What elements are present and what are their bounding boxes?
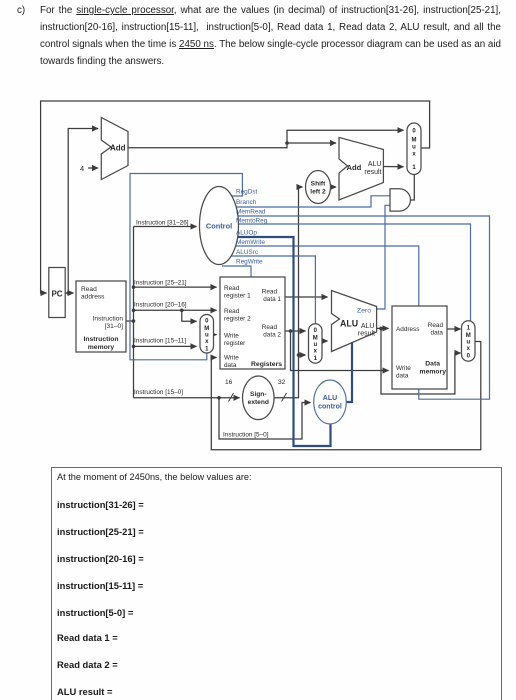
node bus tap instruction output: [132, 319, 136, 323]
registers box: [220, 277, 285, 369]
svg-text:Instruction [20–16]: Instruction [20–16]: [134, 302, 187, 309]
svg-text:Instruction [5–0]: Instruction [5–0]: [223, 432, 269, 439]
wire pc-to-instruction-memory: [65, 292, 73, 294]
svg-text:Instruction [31–26]: Instruction [31–26]: [136, 220, 189, 227]
mux M1 regdst (before Write register): [200, 315, 214, 354]
and gate (branch AND zero): [390, 189, 410, 211]
wire MemRead control signal to data memory bottom: [232, 216, 490, 399]
svg-text:Control: Control: [206, 222, 232, 231]
svg-text:memory: memory: [420, 369, 447, 376]
svg-text:Read: Read: [224, 308, 240, 315]
node instruction[15-0] / [5-0] junction: [217, 396, 221, 400]
node read-data-2 junction: [289, 329, 293, 333]
mux M3 memtoreg (after data memory): [462, 321, 476, 361]
wire RegWrite control signal to Registers top: [222, 266, 251, 277]
ALU U1: [332, 291, 377, 352]
svg-text:u: u: [205, 333, 209, 339]
svg-text:data 2: data 2: [263, 332, 281, 339]
mux M4 branch (PCSrc, top right): [407, 123, 421, 175]
node pc+4 junction: [285, 141, 289, 145]
svg-text:32: 32: [278, 379, 286, 386]
shift left 2 ellipse: [306, 171, 331, 204]
wire sign-extend output up to shift-left-2: [274, 187, 303, 398]
PC register: [49, 268, 65, 318]
ALU control ellipse: [314, 380, 347, 424]
answers box: [51, 467, 502, 700]
wire read-data-1 to ALU: [285, 296, 328, 298]
node bus tap instruction[25-21]: [132, 285, 136, 289]
sign-extend ellipse: [242, 376, 274, 420]
node instruction[20-16] branch junction: [180, 309, 184, 313]
wire instruction bus vertical: [133, 227, 135, 398]
wire ALUSrc control signal to alusrc mux select: [228, 256, 315, 324]
svg-text:Instruction [25–21]: Instruction [25–21]: [134, 280, 187, 287]
svg-text:left 2: left 2: [310, 189, 326, 196]
svg-text:ALU: ALU: [340, 319, 358, 329]
wire ALU-control output (thick) to ALU select input: [346, 343, 352, 403]
svg-text:data: data: [224, 362, 237, 369]
wire instruction[20-16] to Read register 2: [134, 309, 217, 311]
wire RegDst control signal looping left to regdst mux select: [130, 174, 242, 360]
slash 32-bit after sign-extend: [282, 393, 287, 402]
wire ALU-result to data memory Address: [377, 327, 389, 329]
svg-text:u: u: [412, 145, 416, 151]
slash 16-bit on instruction[15-0]: [229, 393, 234, 402]
svg-text:Sign-: Sign-: [250, 391, 266, 398]
svg-text:u: u: [313, 342, 317, 348]
svg-text:Read: Read: [224, 285, 240, 292]
adder Add1 (PC+4): [101, 118, 128, 180]
svg-text:Data: Data: [425, 361, 440, 368]
wire instruction[15-0] to sign-extend: [134, 397, 240, 399]
svg-text:RegDst: RegDst: [236, 189, 258, 196]
control unit ellipse: [200, 187, 239, 265]
svg-text:register 1: register 1: [224, 293, 251, 300]
svg-text:data 1: data 1: [263, 296, 281, 303]
wire instruction[31-26] to Control: [134, 226, 197, 228]
wire MemtoReg control signal to final mux select: [233, 224, 471, 321]
wire pc-loop from branch mux output around top-left into PC: [41, 101, 430, 293]
wire and-gate output to branch mux select: [410, 174, 414, 200]
wire Zero from ALU to AND gate: [377, 205, 390, 309]
svg-text:ALU: ALU: [368, 161, 382, 168]
svg-text:result: result: [358, 331, 375, 338]
svg-text:register 2: register 2: [224, 316, 251, 323]
svg-text:Read: Read: [262, 324, 278, 331]
svg-text:control: control: [318, 404, 342, 411]
svg-text:ALUOp: ALUOp: [236, 230, 257, 237]
svg-text:data: data: [396, 373, 409, 380]
svg-text:M: M: [204, 326, 209, 332]
svg-text:data: data: [431, 330, 444, 337]
svg-text:Write: Write: [224, 333, 239, 340]
wire constant-4 stub into Add1: [88, 167, 98, 169]
wire write-back from final mux to Write data of Registers: [211, 342, 481, 450]
svg-text:Read: Read: [81, 286, 97, 293]
svg-text:Read: Read: [428, 322, 444, 329]
svg-text:ALUSrc: ALUSrc: [236, 249, 259, 256]
data memory box: [392, 306, 447, 389]
node bus tap instruction[15-11]: [132, 345, 136, 349]
svg-text:Instruction [15–0]: Instruction [15–0]: [134, 389, 183, 396]
node pc-up junction: [67, 291, 70, 294]
instruction memory box: [76, 281, 126, 352]
svg-text:MemRead: MemRead: [236, 209, 266, 216]
svg-text:Address: Address: [396, 326, 419, 333]
wire MemWrite control signal to data memory top: [230, 246, 419, 306]
svg-text:Instruction: Instruction: [93, 316, 124, 323]
svg-text:extend: extend: [248, 399, 269, 406]
svg-text:Add: Add: [110, 144, 126, 153]
wire ALU-result bypass to final mux input 0: [381, 328, 461, 394]
svg-text:Instruction [15–11]: Instruction [15–11]: [134, 338, 186, 345]
wire instruction[25-21] to Read register 1: [134, 286, 217, 288]
wire ALUOp control signal (thick) to ALU control: [226, 237, 331, 446]
wire shift-left-2 output to Add2: [331, 186, 337, 188]
wire read-data-2 to alusrc mux input 0: [285, 330, 306, 332]
svg-text:Write: Write: [224, 355, 239, 362]
svg-text:u: u: [466, 340, 470, 346]
wire instruction[15-11] to regdst mux input 1: [134, 345, 197, 347]
svg-text:MemWrite: MemWrite: [236, 239, 265, 246]
mux M2 alusrc (before ALU): [309, 324, 323, 363]
svg-text:16: 16: [225, 379, 233, 386]
svg-text:register: register: [224, 340, 246, 347]
svg-text:Branch: Branch: [236, 199, 257, 206]
wire sign-extend branch to alusrc mux input 1: [299, 354, 306, 356]
wire regdst-mux output to Write register: [214, 334, 217, 336]
wire pc+4 branch up to mux0 input: [287, 130, 404, 143]
svg-text:Zero: Zero: [357, 308, 371, 315]
svg-text:[31–0]: [31–0]: [105, 323, 124, 330]
svg-text:MemtoReg: MemtoReg: [236, 218, 268, 225]
adder Add2 (branch target): [339, 137, 383, 200]
node sign-extend branch junction: [297, 353, 301, 357]
svg-text:Read: Read: [262, 289, 278, 296]
svg-text:memory: memory: [88, 344, 115, 351]
wire add2-result to branch mux input 1: [383, 166, 403, 168]
wire alusrc-mux output to ALU: [322, 340, 328, 342]
svg-text:ALU: ALU: [323, 395, 337, 402]
wire Branch control signal to AND gate: [231, 196, 390, 207]
node ALU-result junction: [379, 327, 383, 331]
svg-text:4: 4: [80, 164, 84, 173]
svg-text:Registers: Registers: [251, 361, 282, 368]
svg-text:RegWrite: RegWrite: [236, 259, 263, 266]
wire read-data-2 branch down to data memory Write data: [291, 331, 389, 371]
wire pc-up-to-add1: [68, 129, 98, 294]
svg-text:Instruction: Instruction: [83, 336, 118, 343]
wire instruction[5-0] down and around to ALU control: [219, 398, 311, 439]
svg-text:Add: Add: [347, 163, 362, 172]
svg-text:PC: PC: [51, 290, 62, 299]
svg-text:Write: Write: [396, 365, 411, 372]
node bus tap instruction[20-16]: [132, 309, 136, 313]
wire pc+4 from Add1 to Add2 top input: [128, 143, 336, 148]
svg-text:address: address: [81, 294, 105, 301]
wire instruction[20-16] branch down to regdst mux input 0: [182, 310, 197, 321]
svg-text:ALU: ALU: [361, 323, 375, 330]
wire instruction-memory output to bus: [126, 320, 134, 322]
svg-text:M: M: [412, 138, 417, 144]
svg-text:M: M: [466, 333, 471, 339]
svg-text:M: M: [313, 336, 318, 342]
svg-text:Shift: Shift: [311, 181, 326, 188]
wire data-memory Read data to final mux input 1: [447, 328, 461, 330]
svg-text:result: result: [364, 169, 381, 176]
